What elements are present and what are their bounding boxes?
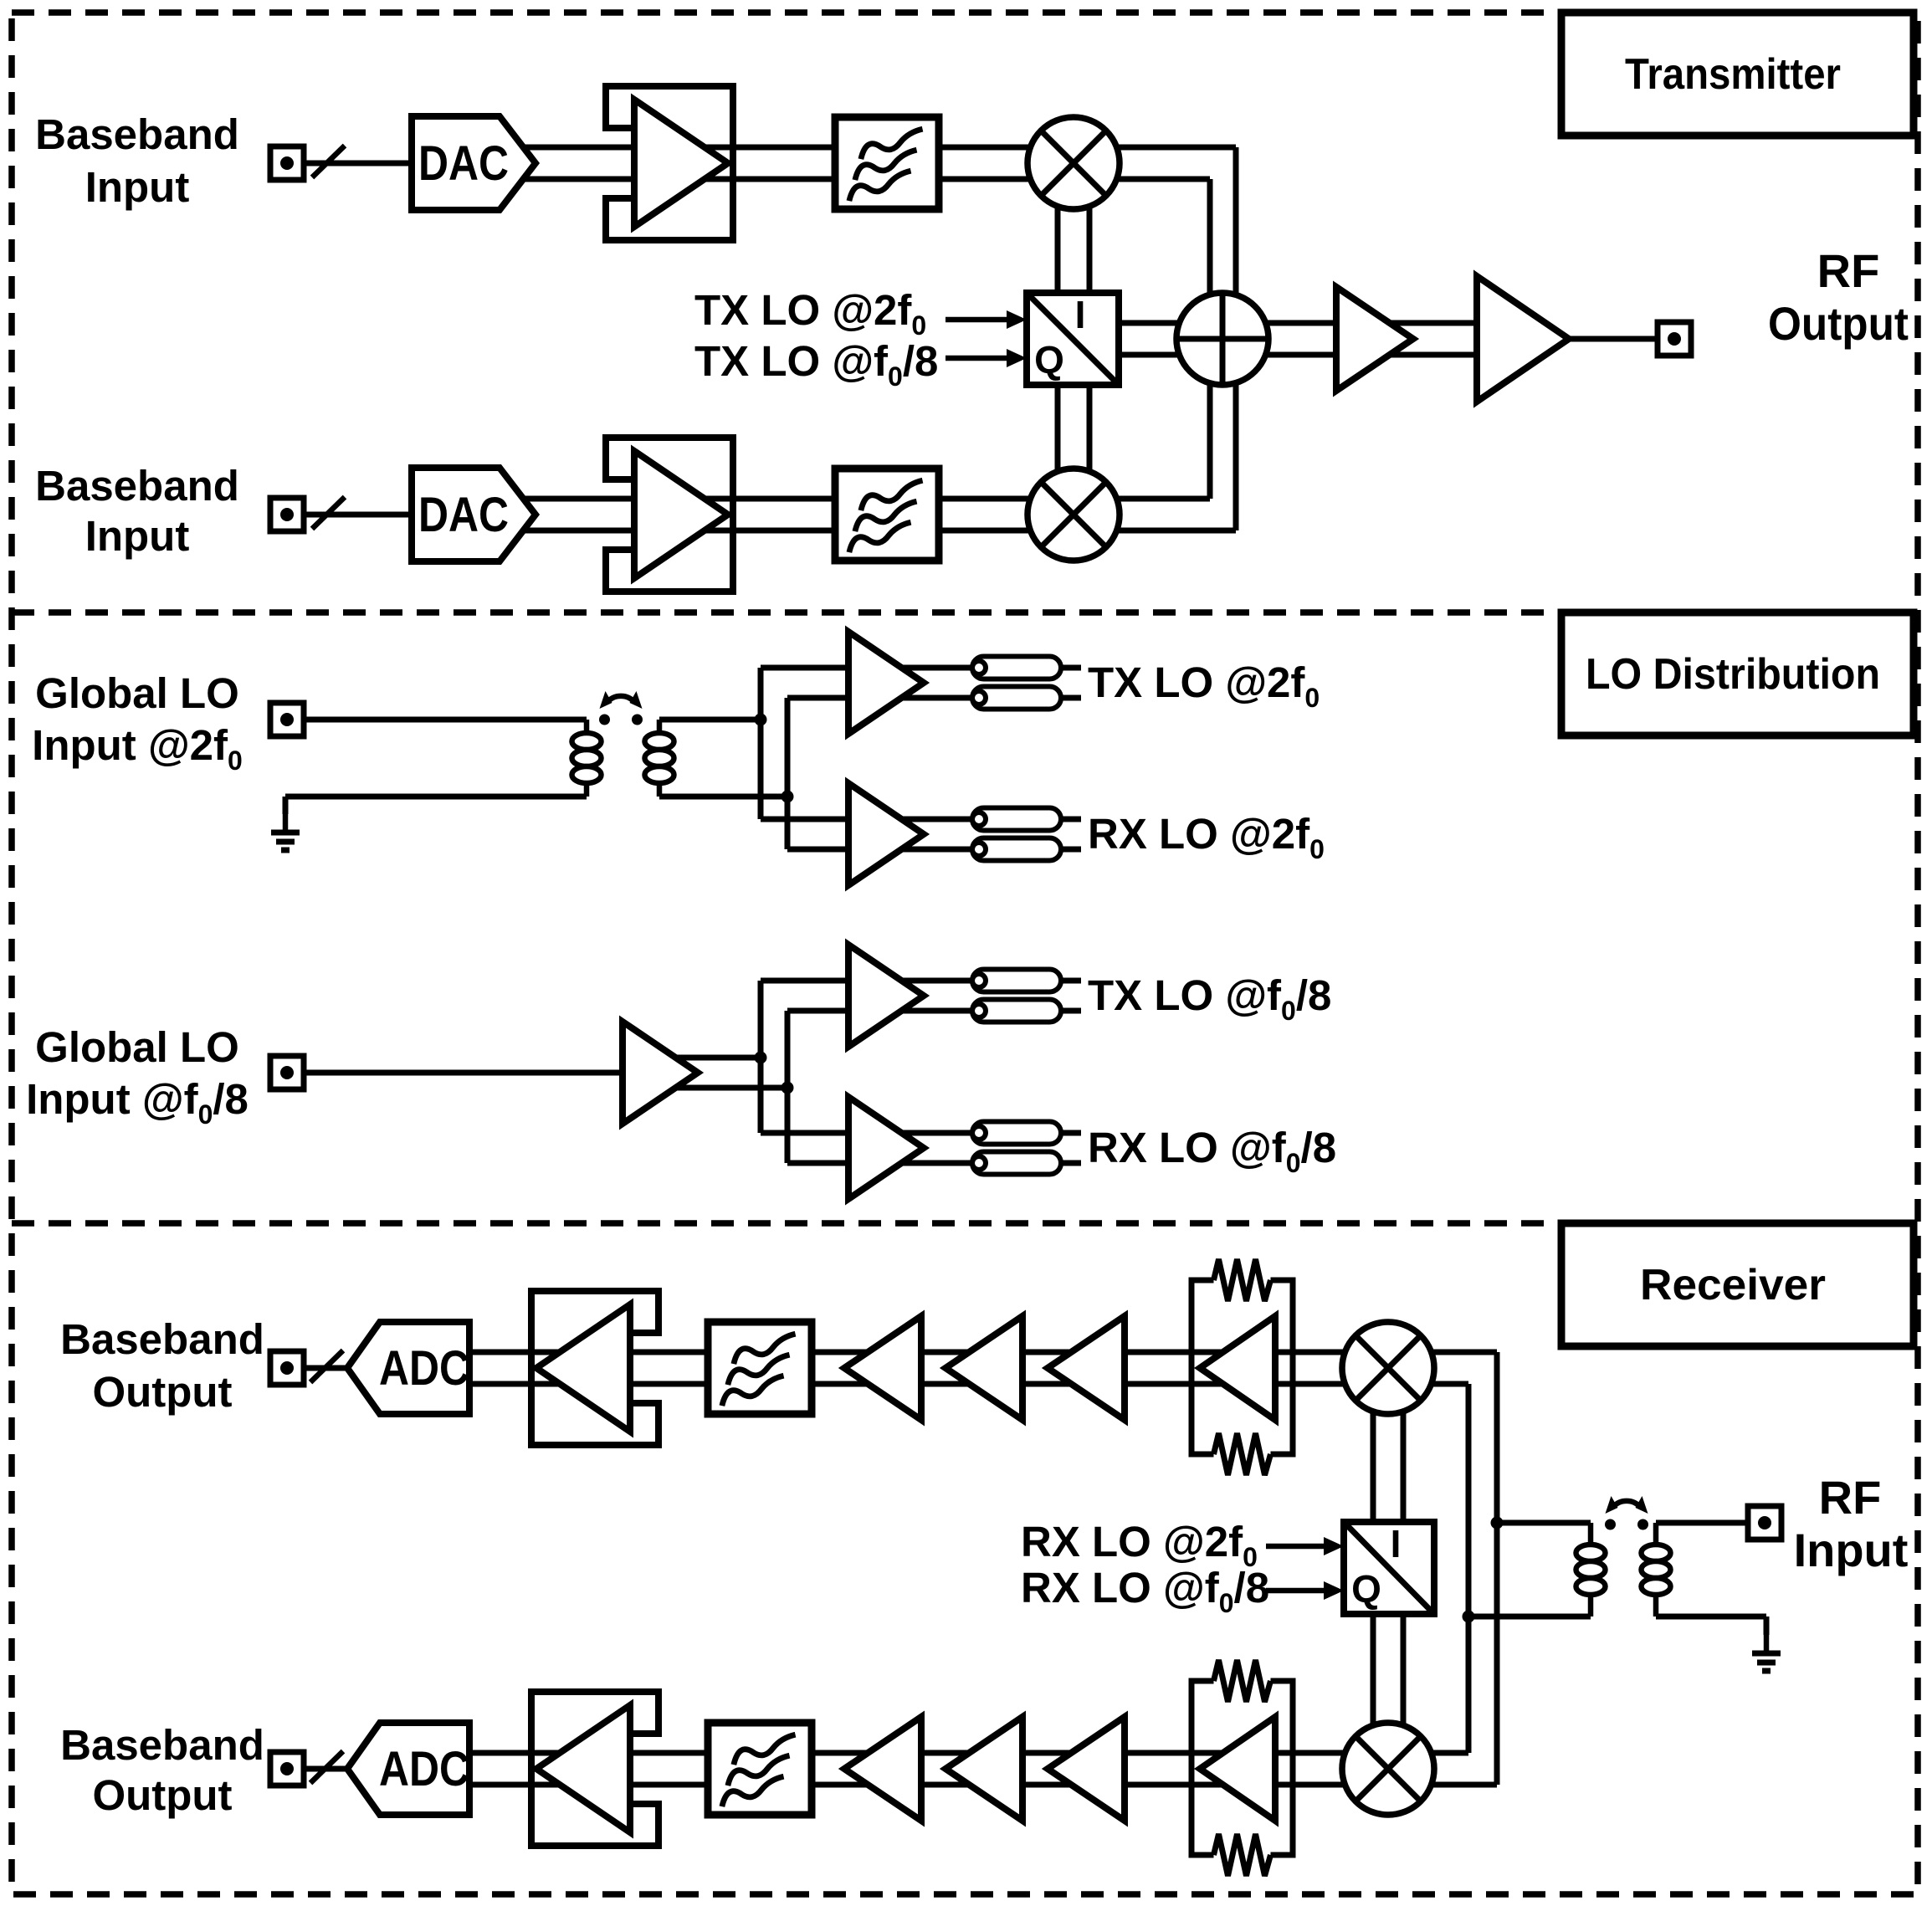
svg-text:Q: Q <box>1351 1567 1381 1611</box>
svg-text:RF: RF <box>1819 1471 1882 1524</box>
svg-text:Input: Input <box>85 163 190 211</box>
svg-text:Input: Input <box>1794 1524 1909 1576</box>
svg-text:RX LO @2f0: RX LO @2f0 <box>1088 810 1325 864</box>
svg-text:Global LO: Global LO <box>35 1023 239 1071</box>
svg-text:Input @f0/8: Input @f0/8 <box>26 1075 249 1130</box>
svg-text:ADC: ADC <box>379 1742 469 1796</box>
svg-text:DAC: DAC <box>418 488 509 542</box>
svg-text:I: I <box>1075 293 1086 336</box>
svg-text:ADC: ADC <box>379 1341 469 1396</box>
svg-text:Transmitter: Transmitter <box>1625 50 1841 99</box>
svg-text:Input: Input <box>85 512 190 560</box>
svg-text:Input @2f0: Input @2f0 <box>32 721 243 776</box>
svg-text:Baseband: Baseband <box>60 1315 264 1363</box>
svg-text:LO Distribution: LO Distribution <box>1586 650 1880 699</box>
svg-text:Output: Output <box>92 1771 232 1819</box>
svg-text:Output: Output <box>92 1368 232 1416</box>
svg-text:TX LO @2f0: TX LO @2f0 <box>1088 658 1320 713</box>
svg-text:Baseband: Baseband <box>60 1721 264 1769</box>
svg-text:RF: RF <box>1817 244 1880 297</box>
svg-text:Receiver: Receiver <box>1640 1261 1826 1309</box>
svg-text:Baseband: Baseband <box>35 110 239 158</box>
svg-text:Output: Output <box>1768 297 1909 350</box>
svg-text:TX LO @2f0: TX LO @2f0 <box>694 286 926 341</box>
svg-text:Baseband: Baseband <box>35 462 239 510</box>
svg-text:Q: Q <box>1034 338 1064 382</box>
svg-text:Global LO: Global LO <box>35 669 239 717</box>
svg-text:I: I <box>1391 1522 1402 1565</box>
svg-text:DAC: DAC <box>418 136 509 191</box>
